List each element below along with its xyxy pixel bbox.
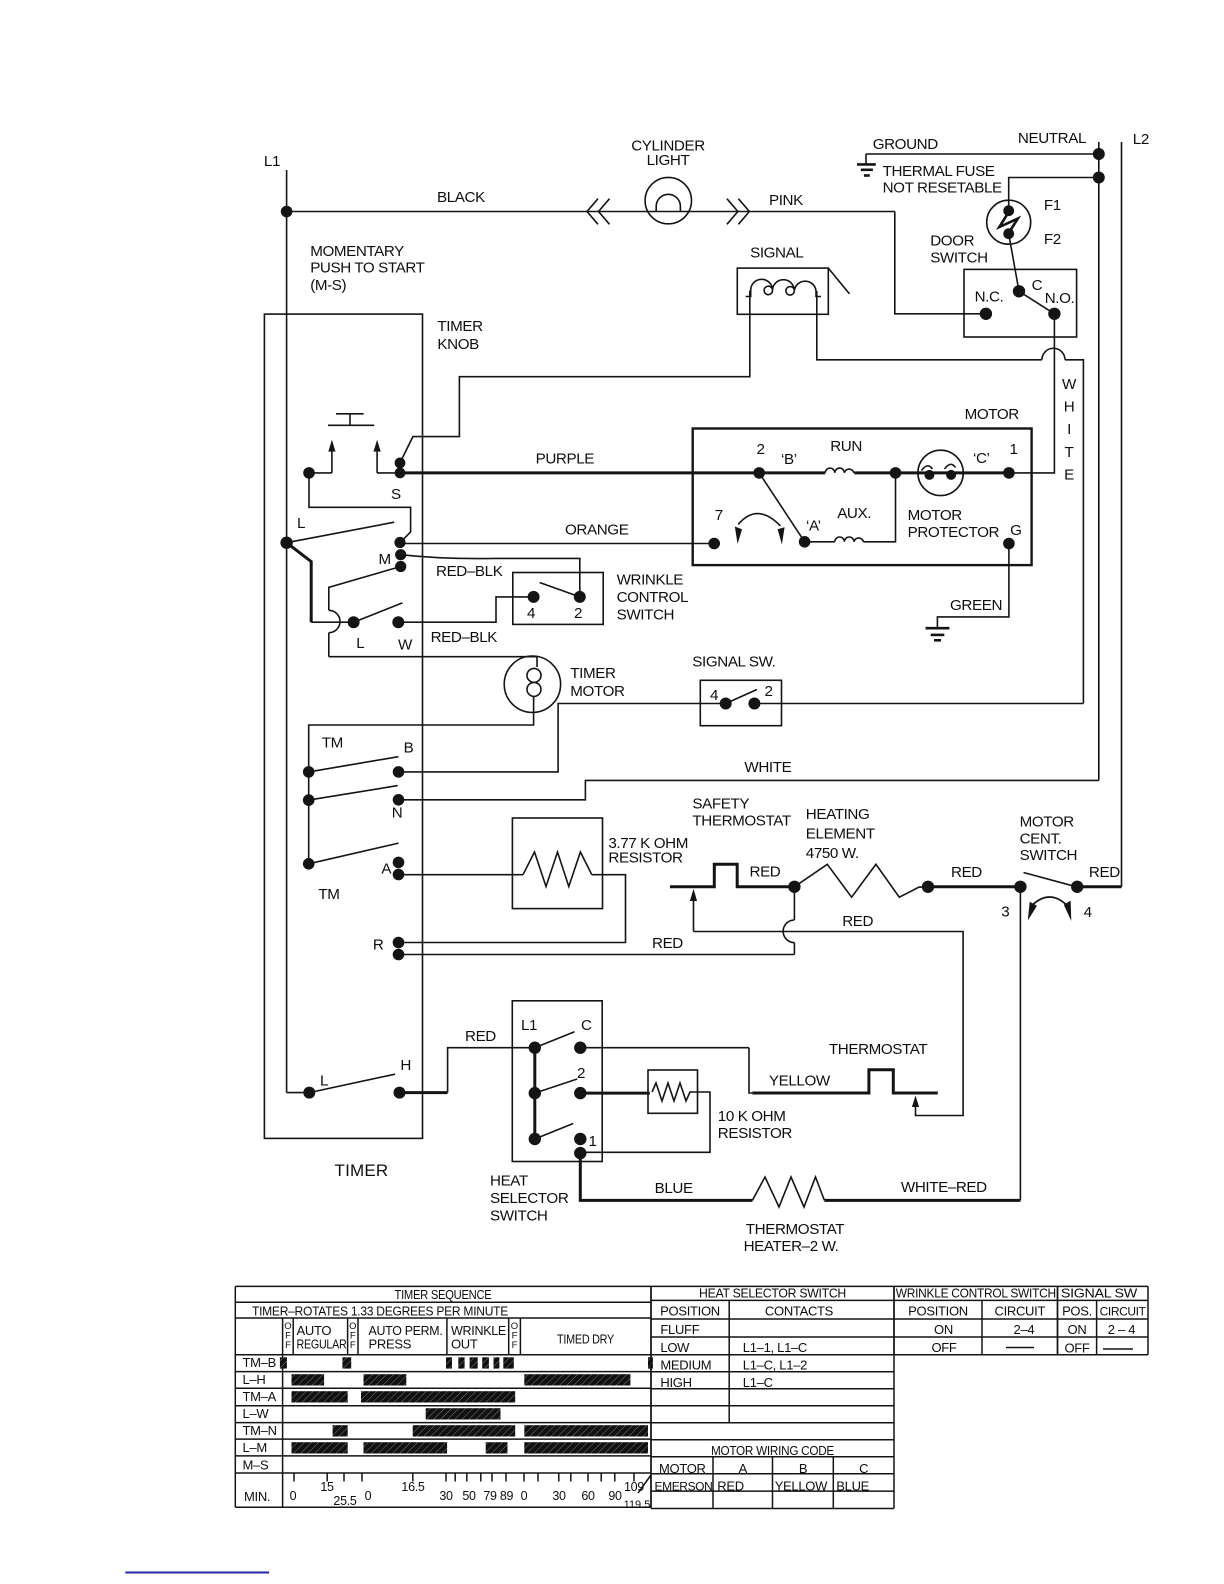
- node neutral junction 1: [1093, 148, 1105, 160]
- svg-text:0: 0: [290, 1489, 297, 1503]
- svg-text:M: M: [379, 551, 391, 568]
- svg-text:L–M: L–M: [243, 1440, 267, 1455]
- wire ORANGE from M to motor terminal 7: [400, 543, 714, 545]
- motor box: [693, 429, 1032, 566]
- signal box flag: [828, 268, 849, 294]
- svg-text:CIRCUIT: CIRCUIT: [994, 1304, 1045, 1319]
- door switch blade C to N.O.: [1019, 291, 1054, 314]
- svg-text:KNOB: KNOB: [437, 336, 479, 353]
- svg-text:T: T: [1065, 444, 1074, 461]
- thermal fuse F1-F2: [987, 200, 1031, 244]
- wire timer motor bottom lead to TM common: [309, 696, 534, 863]
- wire cent switch 4 to L2: [1077, 885, 1121, 888]
- svg-text:MIN.: MIN.: [244, 1489, 270, 1504]
- wire M branch to timer motor: [329, 656, 537, 658]
- svg-text:WRINKLE: WRINKLE: [617, 572, 684, 589]
- wire resistor to R upper: [399, 875, 626, 943]
- svg-text:THERMAL FUSE: THERMAL FUSE: [883, 163, 995, 180]
- svg-text:N.O.: N.O.: [1045, 290, 1075, 307]
- svg-text:WHITE: WHITE: [744, 759, 791, 776]
- svg-text:WRINKLE CONTROL SWITCH: WRINKLE CONTROL SWITCH: [896, 1286, 1056, 1301]
- ground symbol motor: [926, 627, 950, 630]
- 3.77 K OHM resistor element: [523, 852, 592, 887]
- signal buzzer box: [737, 268, 828, 314]
- svg-text:60: 60: [581, 1489, 595, 1503]
- wire hop over N.O. wire: [1042, 348, 1065, 360]
- door switch contact N.O.: [1048, 308, 1060, 320]
- svg-text:RED: RED: [842, 913, 873, 930]
- heat selector switch box: [512, 1001, 602, 1162]
- timer sequence bars L-M: [292, 1442, 348, 1453]
- momentary switch left arrow: [331, 452, 333, 473]
- door switch contact N.C.: [980, 308, 992, 320]
- wire heating element to motor cent switch: [928, 885, 1020, 888]
- contact TM 1: [303, 766, 315, 778]
- svg-text:OUT: OUT: [451, 1337, 478, 1352]
- svg-text:L–W: L–W: [243, 1406, 270, 1421]
- svg-text:YELLOW: YELLOW: [775, 1478, 828, 1493]
- svg-text:TIMER: TIMER: [570, 665, 616, 682]
- signal switch blade: [726, 690, 757, 704]
- svg-text:TIMED DRY: TIMED DRY: [557, 1332, 615, 1347]
- svg-text:0: 0: [521, 1489, 528, 1503]
- wire W to wrinkle control 4: [398, 597, 533, 622]
- svg-text:15: 15: [320, 1480, 334, 1494]
- svg-text:POS.: POS.: [1062, 1304, 1092, 1319]
- wire WHITE-RED: [824, 1199, 1020, 1202]
- connector chevrons right of cylinder light: [727, 199, 750, 225]
- svg-text:CIRCUIT: CIRCUIT: [1100, 1305, 1147, 1319]
- heat selector terminal 1: [574, 1133, 586, 1145]
- motor centrifugal switch contact 3: [1014, 881, 1026, 893]
- heat selector bottom contact: [529, 1133, 541, 1145]
- svg-text:GREEN: GREEN: [950, 597, 1002, 614]
- svg-text:TM: TM: [322, 734, 343, 751]
- svg-text:F: F: [350, 1340, 356, 1351]
- motor switch motion arc: [738, 514, 780, 526]
- signal switch terminal 2: [748, 698, 760, 710]
- ground symbol top: [865, 154, 867, 164]
- motor terminal G: [1003, 538, 1015, 550]
- svg-text:PROTECTOR: PROTECTOR: [908, 524, 1000, 541]
- minute scale leader line: [638, 1475, 651, 1493]
- motor centrifugal switch contact 4: [1071, 881, 1083, 893]
- wire L to lower L contact: [311, 621, 353, 623]
- motor cent switch blade: [1024, 873, 1077, 887]
- svg-text:C: C: [1032, 277, 1043, 294]
- svg-text:EMERSON: EMERSON: [655, 1479, 713, 1493]
- minute scale ticks: [293, 1473, 295, 1482]
- svg-text:16.5: 16.5: [401, 1480, 424, 1494]
- wire 2 to 10K resistor: [580, 1092, 650, 1095]
- wire G to ground: [937, 544, 1009, 629]
- svg-text:HEATING: HEATING: [806, 806, 870, 823]
- safety thermostat sensor arrow: [693, 901, 695, 932]
- svg-text:F1: F1: [1044, 197, 1061, 214]
- svg-text:POSITION: POSITION: [660, 1304, 720, 1319]
- svg-text:(M-S): (M-S): [310, 277, 346, 294]
- svg-text:PRESS: PRESS: [369, 1337, 412, 1352]
- timer sequence bars L-H: [292, 1374, 325, 1385]
- heat selector terminal 2: [574, 1087, 586, 1099]
- svg-text:CENT.: CENT.: [1020, 830, 1062, 847]
- svg-text:30: 30: [552, 1489, 566, 1503]
- timer bottom contact L: [303, 1087, 315, 1099]
- motor terminal A: [799, 536, 811, 548]
- svg-text:TIMER: TIMER: [437, 318, 483, 335]
- wire sensor to thermostat sensor: [694, 932, 964, 1116]
- momentary switch right arrow: [376, 452, 378, 473]
- svg-text:L: L: [356, 635, 364, 652]
- signal switch table grid: [1058, 1285, 1149, 1287]
- contact W: [392, 616, 404, 628]
- wire cent switch 3 down to white-red: [1019, 887, 1021, 1201]
- contact L common junction: [280, 537, 292, 549]
- timer motor: [504, 656, 560, 712]
- svg-text:THERMOSTAT: THERMOSTAT: [692, 813, 790, 830]
- wire timer L rail to bottom L contact: [286, 543, 288, 1093]
- wire node down with hop to R lower wire: [793, 887, 795, 920]
- svg-text:2 – 4: 2 – 4: [1108, 1322, 1135, 1337]
- svg-text:WHITE–RED: WHITE–RED: [901, 1179, 987, 1196]
- timer sequence bars TM-A: [292, 1391, 348, 1402]
- svg-text:TIMER: TIMER: [335, 1161, 389, 1180]
- node heating element right: [922, 881, 934, 893]
- svg-text:RED–BLK: RED–BLK: [436, 563, 503, 580]
- svg-text:LIGHT: LIGHT: [647, 152, 690, 169]
- svg-text:NOT RESETABLE: NOT RESETABLE: [883, 180, 1002, 197]
- svg-text:N: N: [392, 805, 403, 822]
- contact N: [393, 794, 405, 806]
- wire M blade to lower crossing with hop: [329, 567, 401, 611]
- wire RED-BLK from M middle to wrinkle control 2: [401, 555, 580, 597]
- svg-text:SIGNAL SW.: SIGNAL SW.: [692, 654, 775, 671]
- svg-text:MOTOR: MOTOR: [1020, 813, 1075, 830]
- contact M group bottom: [395, 561, 406, 572]
- node neutral junction 2: [1093, 172, 1105, 184]
- svg-text:B: B: [404, 739, 414, 756]
- svg-text:LOW: LOW: [660, 1340, 690, 1355]
- svg-text:L: L: [297, 515, 305, 532]
- svg-text:PINK: PINK: [769, 192, 803, 209]
- motor terminal 7: [708, 538, 720, 550]
- contact TM 3: [303, 858, 315, 870]
- svg-text:DOOR: DOOR: [930, 232, 974, 249]
- wire AUX to node: [863, 473, 895, 542]
- svg-text:MOMENTARY: MOMENTARY: [310, 243, 404, 260]
- signal switch terminal 4: [720, 698, 732, 710]
- svg-text:A: A: [739, 1461, 748, 1476]
- svg-text:119.5: 119.5: [624, 1499, 651, 1511]
- wire R lower to heating element node: [399, 954, 795, 956]
- svg-text:4: 4: [1084, 904, 1092, 921]
- door switch box: [964, 269, 1077, 337]
- TM blade 2: [309, 786, 398, 801]
- svg-text:HIGH: HIGH: [660, 1375, 691, 1390]
- momentary switch right wire: [377, 472, 400, 474]
- svg-text:25.5: 25.5: [333, 1494, 356, 1508]
- svg-text:H: H: [1064, 399, 1075, 416]
- svg-text:F: F: [512, 1340, 518, 1351]
- motor internal node: [890, 467, 902, 479]
- svg-text:30: 30: [439, 1489, 453, 1503]
- motor terminal 1: [1003, 467, 1015, 479]
- svg-text:RED: RED: [717, 1478, 744, 1493]
- svg-text:RESISTOR: RESISTOR: [718, 1125, 793, 1142]
- svg-text:RED: RED: [652, 935, 683, 952]
- 10 K OHM resistor element: [652, 1083, 694, 1101]
- timer bottom blade L-H: [309, 1074, 395, 1092]
- wrinkle control blade: [540, 583, 580, 597]
- svg-text:MOTOR: MOTOR: [965, 406, 1020, 423]
- svg-text:PUSH TO START: PUSH TO START: [310, 259, 424, 276]
- svg-text:CONTACTS: CONTACTS: [765, 1304, 834, 1319]
- timer L blade open: [287, 522, 395, 543]
- contact A pair: [393, 857, 405, 869]
- svg-text:90: 90: [608, 1489, 622, 1503]
- wire fuse F2 to door switch C: [1009, 234, 1019, 292]
- wire ground to neutral node: [866, 153, 1099, 155]
- svg-text:FLUFF: FLUFF: [660, 1322, 699, 1337]
- contact L lower: [348, 616, 360, 628]
- svg-text:109: 109: [624, 1480, 644, 1494]
- svg-text:4750 W.: 4750 W.: [806, 845, 859, 862]
- svg-text:L: L: [320, 1072, 328, 1089]
- wire H to heat selector L1 (RED): [400, 1091, 448, 1094]
- svg-text:THERMOSTAT: THERMOSTAT: [746, 1221, 844, 1238]
- svg-text:2: 2: [765, 683, 773, 700]
- svg-text:10 K OHM: 10 K OHM: [718, 1108, 786, 1125]
- safety thermostat element: [670, 864, 794, 887]
- timer bottom contact H: [394, 1087, 406, 1099]
- svg-text:79: 79: [483, 1489, 497, 1503]
- svg-text:A: A: [381, 860, 392, 877]
- 3.77 K OHM resistor box: [512, 818, 602, 909]
- svg-text:L1–C: L1–C: [743, 1375, 773, 1390]
- svg-text:3: 3: [1001, 904, 1009, 921]
- svg-text:NEUTRAL: NEUTRAL: [1018, 130, 1086, 147]
- contact M group top: [394, 537, 405, 548]
- wire PURPLE from S to motor: [400, 471, 693, 474]
- svg-text:HEATER–2 W.: HEATER–2 W.: [744, 1238, 839, 1255]
- heat selector common rail: [533, 1048, 536, 1139]
- wire C to thermostat (yellow): [580, 1047, 749, 1049]
- svg-text:1: 1: [1010, 441, 1018, 458]
- svg-text:HEAT: HEAT: [490, 1172, 528, 1189]
- svg-text:N.C.: N.C.: [975, 289, 1004, 306]
- svg-text:MOTOR: MOTOR: [908, 507, 963, 524]
- TM blade 3: [309, 843, 399, 864]
- svg-text:THERMOSTAT: THERMOSTAT: [829, 1041, 927, 1058]
- thermostat element: [752, 1070, 937, 1093]
- momentary push button actuator: [336, 413, 364, 415]
- svg-text:H: H: [400, 1057, 411, 1074]
- svg-text:ORANGE: ORANGE: [565, 522, 629, 539]
- svg-text:SIGNAL SW: SIGNAL SW: [1061, 1286, 1138, 1301]
- thermostat sensor arrow: [912, 1096, 919, 1108]
- wire signal coil left lead to momentary S contact: [400, 291, 750, 463]
- svg-text:L1: L1: [264, 153, 280, 170]
- svg-text:L1–1, L1–C: L1–1, L1–C: [743, 1340, 807, 1355]
- svg-text:SWITCH: SWITCH: [930, 249, 988, 266]
- motor protector: [918, 450, 963, 495]
- wire A to 3.77K resistor: [399, 874, 524, 876]
- wire white continues to signal switch terminal 2: [1065, 360, 1083, 704]
- wire S-branch down to M contact: [309, 473, 411, 542]
- node heating element left: [788, 881, 800, 893]
- heat selector blade L1-C: [535, 1032, 575, 1048]
- motor internal wire run: [693, 471, 826, 474]
- svg-text:RED: RED: [465, 1028, 496, 1045]
- svg-text:S: S: [391, 486, 401, 503]
- svg-text:50: 50: [462, 1489, 476, 1503]
- contact B: [393, 766, 405, 778]
- svg-text:SWITCH: SWITCH: [617, 607, 675, 624]
- footer link line: [125, 1572, 269, 1574]
- timer sequence bars TM-B: [280, 1357, 287, 1368]
- svg-text:OFF: OFF: [1064, 1341, 1089, 1356]
- timer sequence bars TM-N: [333, 1425, 348, 1436]
- svg-text:YELLOW: YELLOW: [769, 1072, 831, 1089]
- svg-text:B: B: [799, 1461, 807, 1476]
- motor terminal 2: [753, 467, 765, 479]
- svg-text:REGULAR: REGULAR: [297, 1337, 347, 1352]
- svg-text:CONTROL: CONTROL: [617, 589, 688, 606]
- svg-text:BLUE: BLUE: [655, 1180, 693, 1197]
- heat selector switch table grid: [651, 1285, 894, 1287]
- svg-text:M–S: M–S: [243, 1458, 269, 1473]
- svg-text:1: 1: [589, 1133, 597, 1150]
- wire signal switch 2 to white rail: [754, 703, 1083, 705]
- svg-text:‘B’: ‘B’: [781, 451, 797, 468]
- 10 K OHM resistor box: [648, 1070, 698, 1113]
- svg-text:SELECTOR: SELECTOR: [490, 1190, 569, 1207]
- svg-text:RED: RED: [1089, 864, 1120, 881]
- svg-text:L1: L1: [521, 1017, 537, 1034]
- timer knob box: [264, 314, 422, 1138]
- svg-text:TIMER–ROTATES 1.33 DEGREES PER: TIMER–ROTATES 1.33 DEGREES PER MINUTE: [252, 1304, 509, 1319]
- svg-text:W: W: [1062, 376, 1077, 393]
- wire N to WHITE neutral rail: [399, 780, 1099, 799]
- svg-text:2: 2: [757, 441, 765, 458]
- svg-text:‘C’: ‘C’: [973, 450, 990, 467]
- svg-text:C: C: [581, 1017, 592, 1034]
- timer sequence table grid: [235, 1285, 651, 1287]
- svg-text:W: W: [398, 637, 413, 654]
- contact S: [395, 458, 406, 469]
- svg-text:0: 0: [365, 1489, 372, 1503]
- svg-text:F2: F2: [1044, 231, 1061, 248]
- door switch common C: [1013, 285, 1025, 297]
- svg-text:TM–N: TM–N: [243, 1423, 277, 1438]
- svg-text:MOTOR: MOTOR: [659, 1461, 706, 1476]
- svg-text:PURPLE: PURPLE: [536, 451, 595, 468]
- svg-text:MOTOR WIRING CODE: MOTOR WIRING CODE: [711, 1443, 835, 1458]
- wire 10K resistor return to terminal 1: [580, 1092, 710, 1152]
- svg-text:POSITION: POSITION: [908, 1304, 968, 1319]
- momentary switch left contact: [303, 467, 315, 479]
- svg-text:TIMER SEQUENCE: TIMER SEQUENCE: [395, 1287, 493, 1302]
- svg-text:RED: RED: [750, 864, 781, 881]
- signal coil: [746, 279, 821, 296]
- svg-text:MEDIUM: MEDIUM: [660, 1358, 711, 1373]
- contact TM 2: [303, 794, 315, 806]
- svg-text:‘A’: ‘A’: [806, 517, 821, 534]
- wire neutral to thermal fuse: [1009, 178, 1099, 211]
- svg-text:TM: TM: [318, 886, 339, 903]
- svg-text:SAFETY: SAFETY: [692, 796, 749, 813]
- connector chevrons left of cylinder light: [587, 199, 610, 225]
- signal switch box: [700, 680, 781, 725]
- thermostat heater 2W element: [752, 1177, 824, 1207]
- TM blade 1: [309, 757, 399, 772]
- svg-text:ON: ON: [934, 1322, 953, 1337]
- timer lower blade L-W open: [354, 603, 403, 622]
- lamp CYLINDER LIGHT: [645, 177, 691, 223]
- heat selector terminal 1 lower node: [574, 1147, 586, 1159]
- wire L1 vertical rail: [286, 170, 288, 543]
- wire NEUTRAL vertical rail: [1098, 142, 1100, 780]
- svg-text:RESISTOR: RESISTOR: [608, 850, 683, 867]
- svg-text:RUN: RUN: [830, 438, 862, 455]
- svg-text:GROUND: GROUND: [873, 136, 939, 153]
- wire signal coil right lead (white) to signal switch: [817, 291, 1042, 360]
- svg-text:7: 7: [715, 507, 723, 524]
- svg-text:2: 2: [577, 1065, 585, 1082]
- wire PINK from cylinder light to door switch N.C.: [895, 212, 986, 314]
- heat selector blade mid: [535, 1079, 577, 1093]
- svg-text:SWITCH: SWITCH: [1020, 847, 1078, 864]
- wrinkle control switch box: [513, 573, 603, 625]
- contact R pair: [393, 937, 405, 949]
- svg-text:L1–C, L1–2: L1–C, L1–2: [743, 1358, 807, 1373]
- svg-text:BLACK: BLACK: [437, 189, 485, 206]
- svg-text:L–H: L–H: [243, 1372, 266, 1387]
- contact M group middle: [395, 549, 406, 560]
- svg-text:4: 4: [710, 687, 718, 704]
- node L1 junction: [281, 206, 293, 218]
- svg-text:AUX.: AUX.: [837, 505, 871, 522]
- svg-text:SWITCH: SWITCH: [490, 1207, 548, 1224]
- svg-text:ELEMENT: ELEMENT: [806, 825, 875, 842]
- svg-text:ON: ON: [1068, 1322, 1087, 1337]
- svg-text:BLUE: BLUE: [836, 1478, 869, 1493]
- svg-text:OFF: OFF: [931, 1340, 956, 1355]
- svg-text:2–4: 2–4: [1014, 1322, 1035, 1337]
- svg-text:I: I: [1067, 421, 1071, 438]
- heat selector mid contact: [529, 1087, 541, 1099]
- svg-text:RED–BLK: RED–BLK: [431, 629, 498, 646]
- wire B to signal switch 4: [399, 704, 726, 772]
- wrinkle control terminal 4: [528, 591, 540, 603]
- svg-text:2: 2: [574, 605, 582, 622]
- svg-text:L2: L2: [1133, 131, 1149, 148]
- svg-text:F: F: [285, 1340, 291, 1351]
- svg-text:SIGNAL: SIGNAL: [750, 244, 803, 261]
- wire BLACK from L1 to cylinder light: [287, 211, 895, 213]
- heat selector terminal L1: [529, 1042, 541, 1054]
- wire L common down to lower L contact (thick): [287, 543, 312, 623]
- wrinkle control terminal 2: [574, 591, 586, 603]
- svg-text:TM–B: TM–B: [243, 1355, 276, 1370]
- svg-text:TM–A: TM–A: [243, 1389, 277, 1404]
- svg-text:R: R: [373, 936, 384, 953]
- heating element 4750W: [794, 864, 928, 897]
- wrinkle control switch table grid: [894, 1285, 1058, 1287]
- wire L2 vertical rail: [1121, 142, 1123, 887]
- heat selector terminal C: [574, 1042, 586, 1054]
- svg-text:G: G: [1010, 522, 1021, 539]
